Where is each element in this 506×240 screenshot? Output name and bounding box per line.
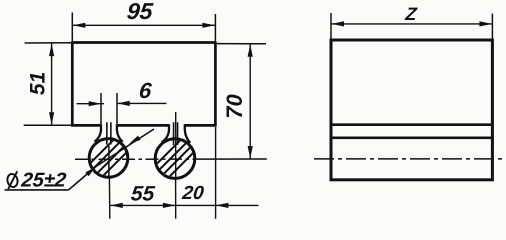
dim 20: right extension line (part right edge extended)	[215, 127, 217, 219]
dim 6: right extension line	[116, 93, 118, 124]
svg-text:95: 95	[126, 0, 155, 24]
right boss neck, left side	[162, 124, 169, 142]
leader arrowhead at upper-right of circle	[129, 136, 141, 144]
svg-text:20: 20	[180, 183, 205, 204]
front view: right edge	[214, 42, 217, 127]
label phi symbol	[6, 173, 19, 188]
dim 55: right arrowhead	[163, 203, 176, 208]
dim 6: right dimension segment	[117, 102, 166, 104]
dim 51: top arrowhead	[49, 44, 54, 57]
svg-text:55: 55	[130, 183, 156, 206]
front view: bottom edge segment 1	[71, 124, 101, 127]
vertical centerline / extension below right hole	[175, 179, 177, 219]
leader shelf	[5, 189, 69, 191]
dim 6: left dimension segment	[77, 103, 105, 105]
dim 51: dimension line	[51, 43, 53, 125]
svg-text:51: 51	[27, 72, 50, 95]
front view: bottom edge segment 3	[185, 124, 217, 127]
vertical centerline left hole	[108, 146, 110, 176]
right slit lines	[173, 122, 175, 145]
left boss neck, left side	[95, 124, 101, 142]
leader segment to circle	[69, 167, 96, 190]
left slit lines	[106, 122, 108, 144]
side view outline	[331, 40, 492, 180]
dim Z: right arrowhead	[479, 21, 492, 26]
dim Z: left arrowhead	[332, 21, 345, 26]
hole circle left	[89, 139, 128, 178]
dim 6: left extension line	[100, 93, 102, 124]
dim 55: left arrowhead	[110, 203, 123, 208]
dim 70: top arrowhead	[248, 44, 253, 57]
left boss neck, right side	[117, 124, 123, 142]
dim 70: top extension line	[215, 43, 266, 45]
horizontal axis centerline through holes	[75, 158, 203, 160]
side view: hole axis centerline	[314, 158, 505, 160]
leader line through circle	[96, 129, 154, 167]
svg-text:25±2: 25±2	[19, 170, 67, 192]
dim 20: right arrowhead (from outside)	[216, 203, 229, 208]
dim 95: left arrowhead	[73, 23, 86, 28]
front view: top edge	[72, 41, 215, 44]
axis extension (solid) to 70-dim arrow	[203, 158, 267, 160]
svg-text:70: 70	[222, 94, 247, 119]
dim 51: bottom extension line	[24, 124, 73, 126]
dim 70: dimension line	[249, 44, 251, 160]
dim 95: left extension line	[71, 13, 73, 58]
dim 51: bottom arrowhead	[49, 112, 54, 125]
front view: left edge	[71, 42, 74, 127]
side view: plate bottom edge line	[331, 123, 492, 126]
dim 6: left arrowhead (pointing right)	[89, 101, 102, 106]
dim 95: right arrowhead	[202, 23, 215, 28]
hole circle right	[155, 139, 195, 179]
vertical centerline / extension below left hole	[108, 177, 110, 219]
dim 95: dimension line	[72, 24, 215, 26]
side view: boss top edge line	[331, 137, 492, 140]
dim 95: right extension line	[214, 14, 216, 58]
dim Z: right extension line	[491, 14, 493, 54]
leader arrowhead at lower-left of circle	[85, 167, 96, 177]
right boss neck, right side	[185, 124, 190, 143]
vertical centerline right hole	[175, 112, 177, 178]
dim 51: top extension line	[25, 42, 73, 44]
dim 70: bottom arrowhead	[248, 146, 253, 159]
front view: bottom edge segment 2	[117, 124, 169, 127]
dim 55-20: dimension line	[110, 204, 259, 206]
dim 6: right arrowhead (pointing left)	[117, 101, 130, 106]
dim Z: left extension line	[330, 13, 332, 56]
dim Z: dimension line	[331, 23, 492, 25]
